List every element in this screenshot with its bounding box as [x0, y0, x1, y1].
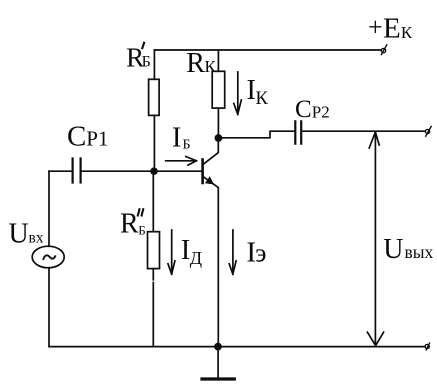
svg-text:Б: Б: [183, 138, 191, 153]
svg-text:К: К: [401, 23, 413, 42]
svg-text:Д: Д: [190, 248, 202, 268]
svg-text:C: C: [295, 96, 312, 123]
svg-text:вх: вх: [29, 230, 44, 247]
svg-text:E: E: [383, 13, 401, 45]
svg-text:К: К: [205, 57, 217, 76]
svg-text:э: э: [255, 239, 266, 268]
svg-text:Б: Б: [138, 223, 145, 238]
svg-text:R: R: [186, 48, 205, 79]
svg-text:Р2: Р2: [312, 103, 330, 122]
svg-text:+: +: [368, 13, 383, 42]
svg-text:I: I: [247, 75, 256, 106]
svg-text:вых: вых: [405, 242, 434, 262]
svg-text:К: К: [256, 89, 269, 109]
svg-text:I: I: [172, 123, 181, 154]
svg-text:U: U: [383, 234, 403, 265]
svg-text:R: R: [120, 209, 139, 240]
svg-text:Р1: Р1: [86, 127, 108, 151]
svg-text:Б: Б: [142, 54, 151, 71]
svg-text:U: U: [9, 219, 29, 250]
svg-text:C: C: [67, 120, 86, 152]
